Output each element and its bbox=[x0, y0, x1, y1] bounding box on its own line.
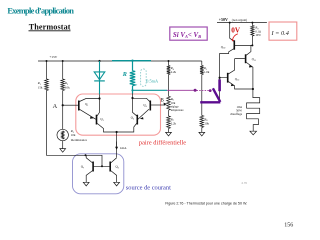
svg-text:Figure 2.76 - Thermostat pour: Figure 2.76 - Thermostat pour une charge… bbox=[165, 201, 247, 205]
svg-text:paire différentielle: paire différentielle bbox=[139, 140, 186, 147]
svg-text:R: R bbox=[122, 71, 127, 78]
svg-text:156: 156 bbox=[284, 222, 293, 228]
svg-text:Si VA< VB: Si VA< VB bbox=[173, 32, 201, 39]
svg-text:+50V: +50V bbox=[219, 17, 228, 22]
svg-text:2.76: 2.76 bbox=[242, 181, 248, 185]
svg-text:0.5mA: 0.5mA bbox=[146, 79, 159, 84]
svg-text:source de courant: source de courant bbox=[126, 185, 171, 192]
svg-text:10W: 10W bbox=[255, 34, 261, 37]
svg-text:15k: 15k bbox=[38, 86, 43, 90]
svg-text:Thermostat: Thermostat bbox=[29, 22, 71, 31]
svg-text:(non régulé): (non régulé) bbox=[232, 18, 247, 22]
svg-text:2.2k: 2.2k bbox=[171, 122, 177, 126]
svg-text:I = 0.4: I = 0.4 bbox=[271, 30, 289, 37]
svg-text:0.1Ω: 0.1Ω bbox=[255, 30, 261, 33]
svg-text:10k: 10k bbox=[65, 86, 70, 90]
svg-text:Exemple d’application: Exemple d’application bbox=[7, 6, 74, 15]
svg-text:10k: 10k bbox=[204, 122, 209, 126]
svg-text:température: température bbox=[171, 109, 185, 112]
svg-text:10k: 10k bbox=[71, 133, 76, 137]
svg-text:0V: 0V bbox=[231, 27, 241, 35]
svg-text:10k: 10k bbox=[171, 101, 176, 105]
svg-text:2.2k: 2.2k bbox=[171, 70, 177, 74]
svg-text:1.0k: 1.0k bbox=[204, 70, 210, 74]
svg-text:chauffage: chauffage bbox=[230, 112, 243, 116]
svg-text:+15V: +15V bbox=[50, 55, 58, 59]
svg-text:A: A bbox=[53, 103, 58, 110]
svg-text:thermistance: thermistance bbox=[71, 138, 88, 142]
svg-text:1mA: 1mA bbox=[120, 146, 127, 150]
